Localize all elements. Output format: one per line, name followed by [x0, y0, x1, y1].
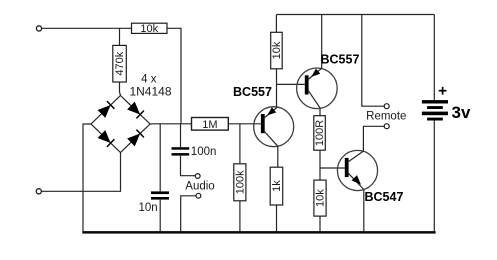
wire top input to 10k	[42, 27, 132, 29]
svg-text:10k: 10k	[271, 41, 283, 59]
diode bridge outline	[91, 96, 150, 153]
wire 100R bottom to BC547 base node	[320, 150, 345, 168]
wire bridge left vertex to left rail drop	[83, 124, 91, 231]
terminal Audio lower	[196, 193, 201, 198]
wire main node: bridge right vertex to 1M	[150, 123, 192, 125]
resistor R4 100k	[234, 164, 247, 201]
resistor R3 1M	[192, 118, 229, 131]
wire remote upper terminal to top rail	[362, 15, 384, 107]
wire node down to 470k	[119, 28, 121, 45]
svg-text:1M: 1M	[202, 119, 217, 131]
svg-text:Audio: Audio	[185, 181, 214, 193]
wire 100n bottom to Audio upper terminal	[181, 156, 196, 176]
resistor R6 10k (middle)	[271, 32, 283, 69]
capacitor C1 100n	[172, 147, 190, 155]
svg-text:470k: 470k	[114, 51, 126, 75]
transistor Q2 BC557 (upper)	[297, 68, 338, 109]
wire 10k to corner and down to main node	[167, 28, 181, 124]
terminal input upper	[36, 26, 41, 31]
svg-text:100R: 100R	[314, 120, 326, 146]
svg-text:10k: 10k	[140, 23, 158, 35]
wire 10k mid bottom to lower BC557 emitter, node to upper base	[277, 69, 305, 108]
terminal input lower	[36, 189, 41, 194]
diode D2 (top to right)	[128, 103, 144, 119]
terminal Audio upper	[195, 174, 200, 179]
svg-text:BC557: BC557	[233, 85, 272, 99]
battery plus sign	[439, 87, 447, 95]
wire 10n bottom to rail	[159, 200, 161, 232]
svg-text:BC547: BC547	[365, 190, 404, 204]
terminal Remote upper	[384, 104, 389, 109]
wire 1M to base of lower BC557	[228, 123, 261, 125]
wire upper BC557 emitter to top rail	[321, 15, 323, 69]
wire 100k top	[239, 124, 241, 164]
wire 10n top	[159, 124, 161, 192]
diode D3 (left to bottom)	[99, 131, 115, 147]
wire bridge bottom vertex down and left to lower input terminal	[41, 153, 120, 192]
svg-text:10n: 10n	[139, 202, 158, 214]
resistor R2 470k	[113, 45, 127, 82]
resistor R5 1k	[270, 167, 283, 205]
battery B1 3v plates	[422, 100, 448, 120]
wire top rail	[276, 14, 434, 16]
wire 470k to bridge top	[120, 82, 121, 96]
wire BC547 emitter to rail	[363, 190, 365, 232]
capacitor C2 10n	[151, 191, 169, 199]
svg-text:1k: 1k	[271, 180, 283, 192]
resistor R7 100R	[314, 116, 326, 151]
wire Audio lower terminal to ground rail	[181, 196, 196, 232]
resistor R8 10k (bottom right)	[314, 180, 327, 216]
wire 1k bottom	[276, 205, 278, 231]
terminal Remote lower	[384, 124, 389, 129]
transistor Q3 BC547	[337, 150, 377, 190]
wire node down to 10k bottom-right	[319, 168, 321, 180]
ground rail (bottom)	[82, 231, 435, 234]
wire top rail to 10k mid	[275, 15, 277, 33]
svg-text:1N4148: 1N4148	[129, 84, 171, 98]
diode D1 (lower-left to top)	[99, 101, 115, 117]
svg-text:10k: 10k	[315, 189, 327, 207]
svg-text:BC557: BC557	[321, 52, 360, 66]
wire 100k bottom	[239, 201, 241, 232]
diode D4 (bottom to right)	[128, 130, 144, 146]
svg-text:100k: 100k	[235, 170, 247, 194]
wire 100n top	[180, 124, 182, 147]
svg-text:Remote: Remote	[366, 111, 406, 123]
svg-text:3v: 3v	[452, 103, 471, 122]
wire BC547 collector up and right to Remote lower terminal	[363, 126, 384, 151]
wire battery bottom	[433, 121, 435, 232]
wire lower BC557 collector to 1k	[277, 146, 279, 167]
wire battery top	[433, 15, 435, 101]
svg-text:100n: 100n	[191, 146, 217, 158]
wire upper BC557 collector to 100R	[319, 108, 321, 116]
resistor R1 10k (top)	[132, 23, 168, 35]
transistor Q1 BC557 (lower)	[254, 107, 294, 147]
wire 10k bottom-right to rail	[319, 216, 321, 231]
